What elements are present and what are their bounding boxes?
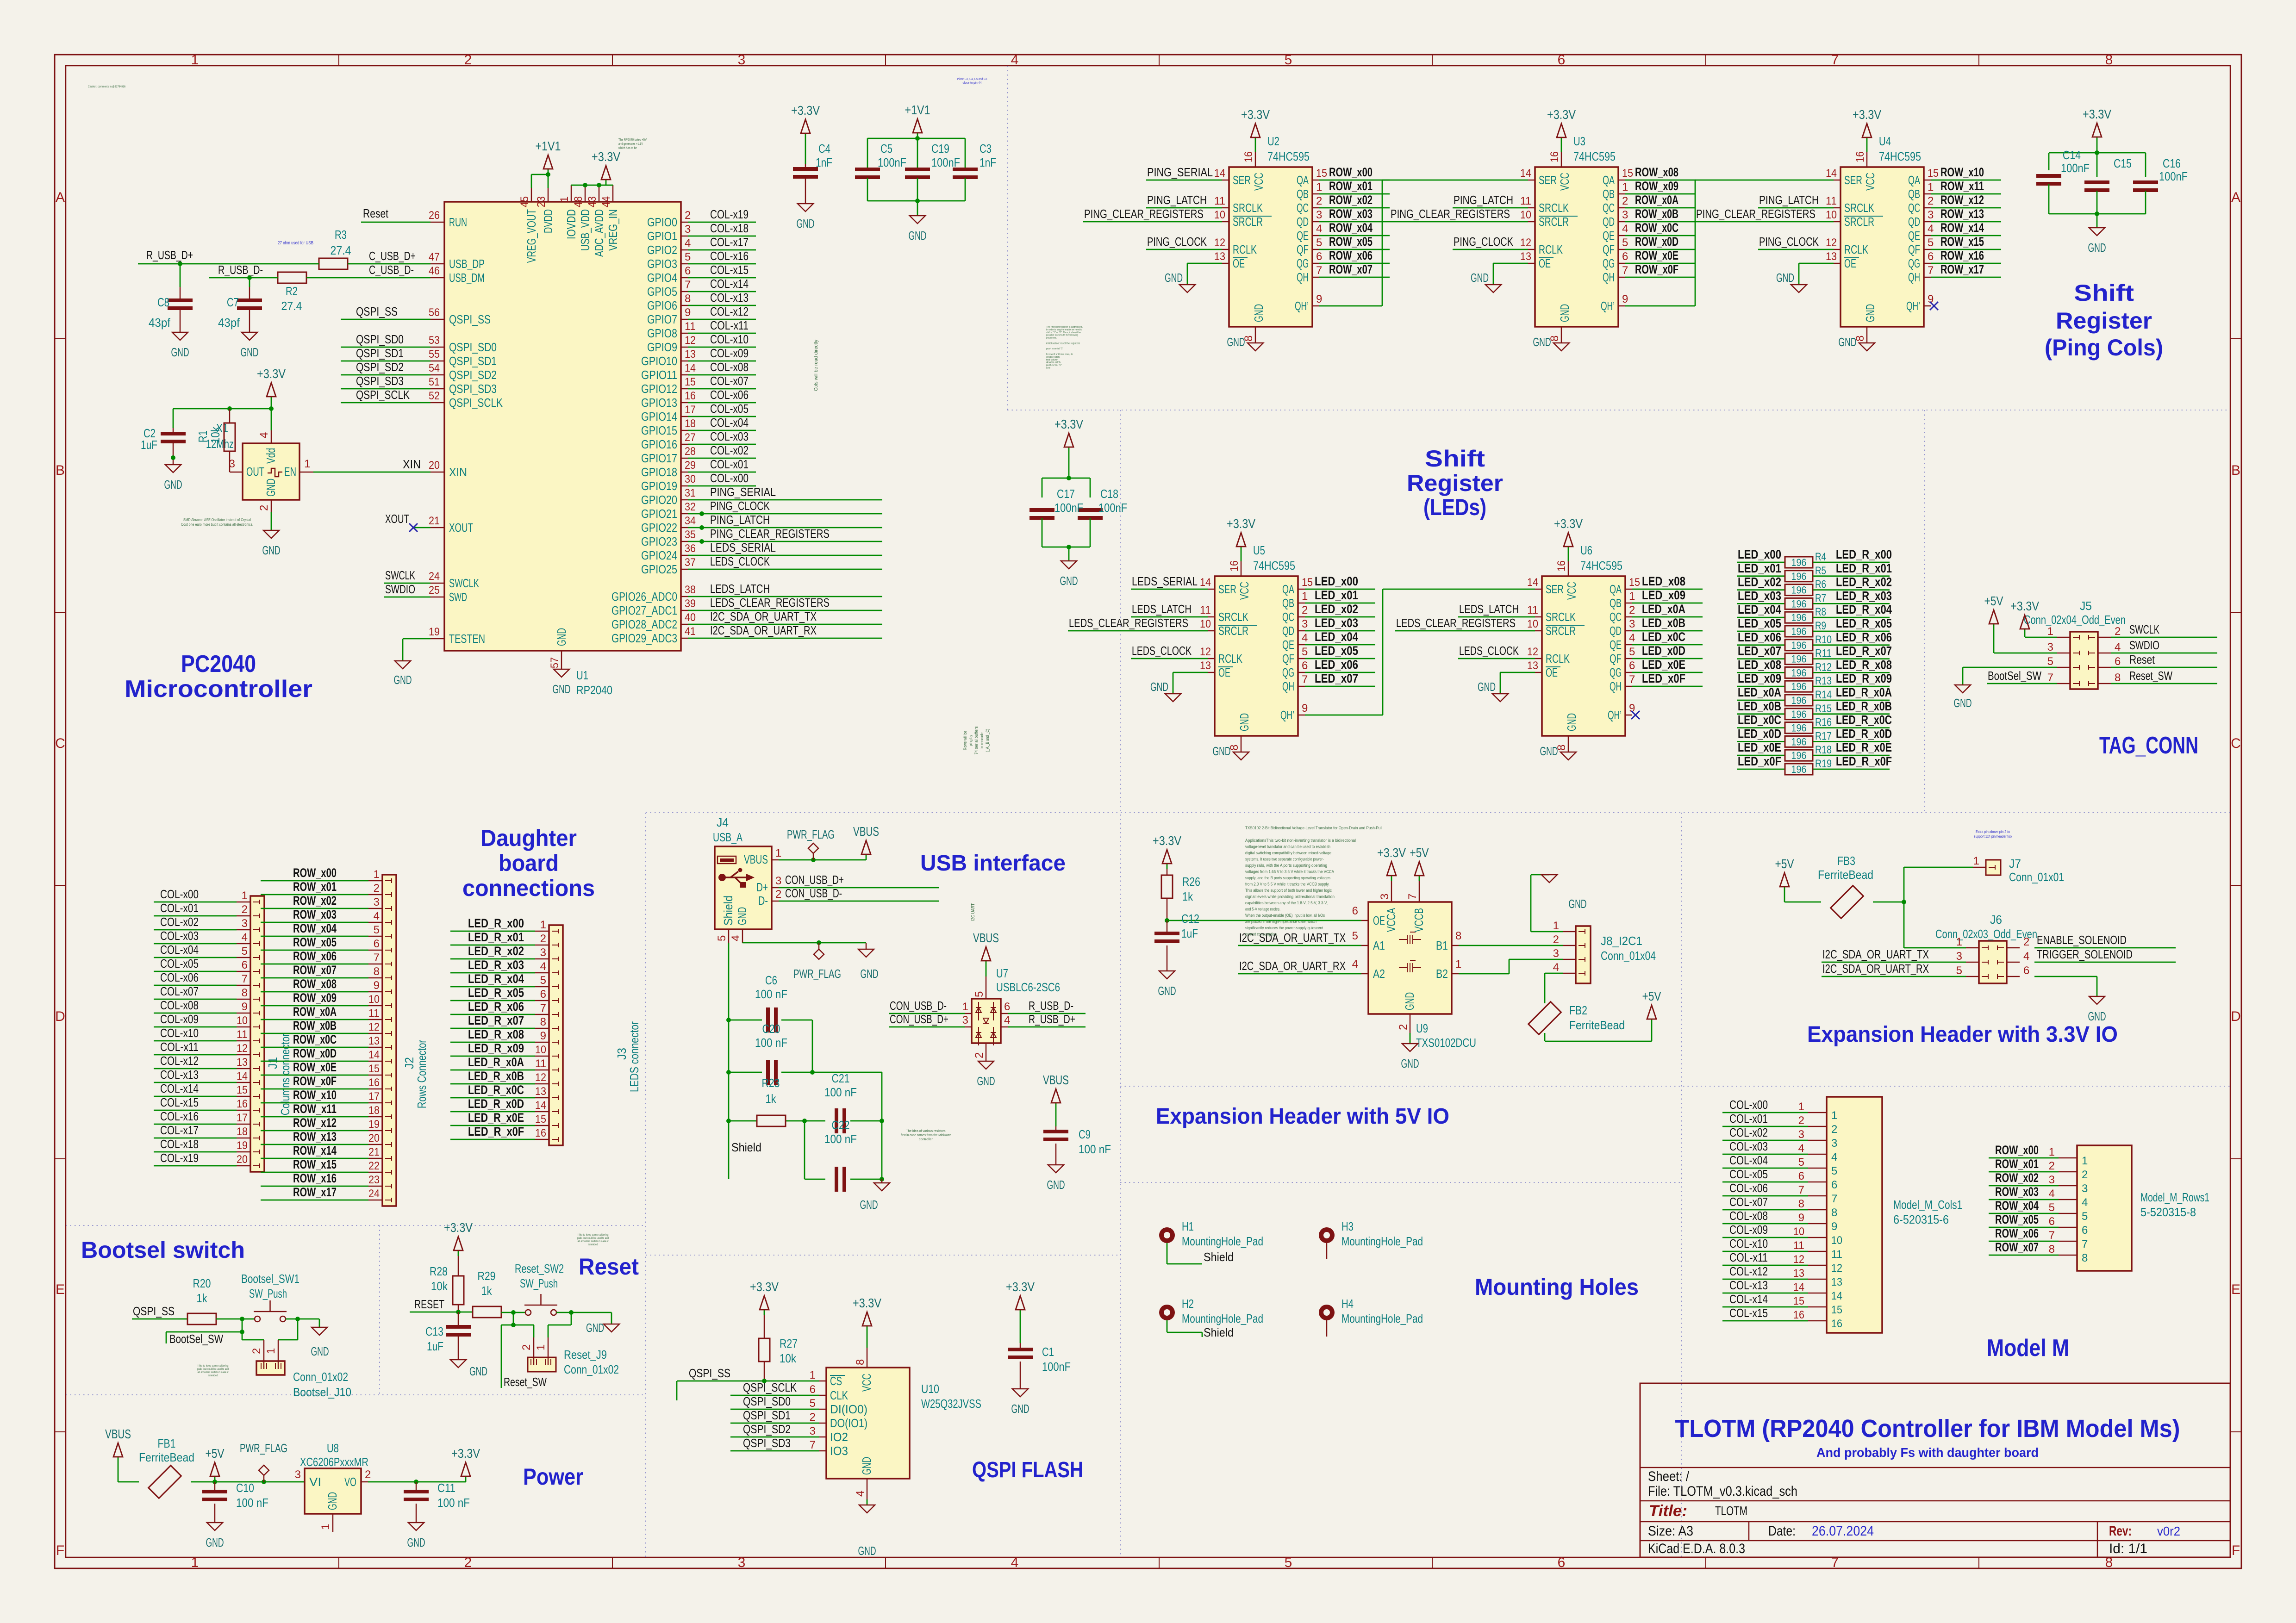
- svg-text:2: 2: [1553, 933, 1559, 946]
- pin 4 of J2: [368, 910, 392, 925]
- mounting hole H3: [1319, 1227, 1335, 1243]
- crystal glyph inside X1: [268, 468, 282, 477]
- pin 52 QSPI_SCLK of U1: [429, 390, 503, 410]
- pin 24 of J2: [368, 1188, 392, 1202]
- svg-text:6: 6: [685, 265, 691, 277]
- svg-text:ROW_x06: ROW_x06: [1995, 1226, 2039, 1240]
- wire net ROW_x00: [1319, 180, 1390, 181]
- wire C17 C18 bottom rail: [1042, 518, 1090, 561]
- svg-text:PING_LATCH: PING_LATCH: [1147, 193, 1207, 207]
- wire net LED_x09: [1737, 686, 1785, 687]
- svg-text:+3.3V: +3.3V: [257, 367, 286, 381]
- svg-text:LED_x0B: LED_x0B: [1738, 699, 1781, 713]
- svg-text:R12: R12: [1815, 661, 1832, 673]
- svg-text:QH’: QH’: [1295, 299, 1309, 313]
- wire net ENABLE_SOLENOID: [2034, 947, 2176, 949]
- svg-text:ROW_x13: ROW_x13: [1940, 207, 1984, 221]
- svg-text:COL-x05: COL-x05: [710, 402, 749, 416]
- svg-text:OUT: OUT: [246, 465, 264, 479]
- svg-text:20: 20: [237, 1153, 248, 1166]
- svg-text:GND: GND: [1471, 271, 1489, 285]
- svg-text:U3: U3: [1573, 134, 1585, 148]
- svg-text:OE: OE: [1539, 256, 1551, 270]
- svg-text:VCC: VCC: [1558, 173, 1572, 191]
- svg-text:Cols will be read directly: Cols will be read directly: [813, 340, 819, 391]
- svg-text:11: 11: [237, 1028, 248, 1041]
- svg-text:1uF: 1uF: [1181, 927, 1198, 940]
- pin 2 GND of X1: [258, 479, 278, 512]
- svg-text:LED_R_x04: LED_R_x04: [468, 972, 524, 986]
- svg-text:LEDS_CLOCK: LEDS_CLOCK: [710, 554, 770, 568]
- pin 3 of Model_M_Rows1: [2049, 1174, 2088, 1195]
- svg-text:14: 14: [1831, 1290, 1842, 1302]
- svg-text:LED_R_x07: LED_R_x07: [1836, 644, 1892, 658]
- pin 18 GPIO15 of U1: [641, 417, 696, 437]
- svg-text:ADC_AVDD: ADC_AVDD: [592, 209, 606, 257]
- USB icon inside J4: [717, 856, 755, 888]
- svg-text:QSPI_SD2: QSPI_SD2: [449, 368, 497, 382]
- svg-text:J3: J3: [615, 1048, 629, 1060]
- wire net LEDS_CLOCK: [688, 569, 882, 570]
- svg-text:3: 3: [374, 896, 380, 908]
- svg-text:22: 22: [368, 1160, 380, 1172]
- pin 1 of Bootsel_J10: [265, 1340, 281, 1369]
- svg-text:COL-x17: COL-x17: [160, 1123, 199, 1137]
- svg-text:GND: GND: [553, 682, 571, 696]
- svg-text:voltages from 1.65 V to 3.6 V: voltages from 1.65 V to 3.6 V while it t…: [1245, 870, 1334, 874]
- svg-text:COL-x11: COL-x11: [160, 1040, 199, 1054]
- svg-text:ROW_x03: ROW_x03: [293, 908, 337, 921]
- svg-text:RP2040: RP2040: [576, 683, 612, 697]
- pin 8 VCC of U10: [854, 1348, 873, 1392]
- power +3.3V at U4: [1853, 107, 1881, 143]
- svg-text:GND: GND: [1776, 271, 1794, 285]
- wire net CON_USB_D+: [779, 887, 939, 889]
- wire net COL-x11: [1722, 1265, 1808, 1266]
- svg-text:VI: VI: [309, 1475, 321, 1489]
- svg-text:COL-x07: COL-x07: [710, 374, 749, 388]
- svg-text:B1: B1: [1436, 939, 1448, 952]
- wire switch right to ground: [556, 1312, 611, 1324]
- svg-text:6: 6: [1352, 905, 1358, 917]
- svg-text:PWR_FLAG: PWR_FLAG: [793, 967, 841, 981]
- svg-text:Conn_01x04: Conn_01x04: [1601, 949, 1656, 963]
- svg-text:GND: GND: [1213, 744, 1231, 758]
- svg-text:ROW_x12: ROW_x12: [1940, 193, 1984, 207]
- wire OE of U6 to ground: [1500, 672, 1535, 694]
- svg-text:v0r2: v0r2: [2157, 1524, 2180, 1538]
- pin 1 IOVDD of U1: [558, 185, 578, 239]
- svg-text:C11: C11: [437, 1481, 455, 1495]
- svg-text:+3.3V: +3.3V: [1054, 417, 1083, 431]
- pin 1 of J7: [1973, 855, 1995, 870]
- svg-text:SRCLR: SRCLR: [1539, 215, 1569, 229]
- wire net ROW_x0A: [261, 1019, 368, 1020]
- C2 top lead: [173, 409, 174, 433]
- svg-text:1: 1: [962, 1001, 968, 1013]
- svg-text:LED_x0B: LED_x0B: [1642, 616, 1685, 630]
- wire net LEDS_LATCH: [1458, 616, 1535, 618]
- svg-text:74HC595: 74HC595: [1253, 559, 1295, 572]
- svg-text:COL-x19: COL-x19: [710, 207, 749, 221]
- wire net COL-x05: [154, 971, 237, 972]
- wire net LED_x0D: [1632, 658, 1703, 659]
- ground under U3: [1533, 335, 1570, 351]
- svg-text:GND: GND: [735, 907, 749, 925]
- svg-text:+3.3V: +3.3V: [592, 149, 620, 164]
- svg-text:SW_Push: SW_Push: [520, 1276, 558, 1290]
- wire net COL-x07: [688, 388, 756, 390]
- wire net LED_x0A: [1737, 700, 1785, 701]
- capacitor C7: [237, 298, 262, 310]
- svg-text:32: 32: [685, 501, 696, 513]
- svg-text:(Ping Cols): (Ping Cols): [2045, 335, 2163, 361]
- svg-text:IO3: IO3: [830, 1444, 848, 1458]
- svg-text:SWCLK: SWCLK: [385, 568, 415, 582]
- pin 29 GPIO18 of U1: [641, 459, 696, 479]
- svg-text:ENABLE_SOLENOID: ENABLE_SOLENOID: [2037, 933, 2127, 947]
- junction: [511, 1323, 516, 1327]
- svg-text:GND: GND: [1011, 1402, 1029, 1416]
- C2 bottom lead: [173, 442, 174, 465]
- pin 4 QE of U4: [1908, 223, 1934, 243]
- svg-text:E: E: [56, 1282, 65, 1297]
- wire net COL-x07: [154, 999, 237, 1000]
- pin 6 of J5: [2089, 655, 2121, 670]
- svg-text:4: 4: [1553, 961, 1559, 974]
- svg-text:EN: EN: [284, 465, 296, 479]
- svg-text:Shield: Shield: [1204, 1250, 1234, 1264]
- wire net LEDS_CLEAR_REGISTERS: [688, 610, 882, 611]
- pin 2 of Model_M_Cols1: [1798, 1114, 1838, 1136]
- pin 1 GND of U8: [319, 1492, 339, 1532]
- svg-text:2: 2: [540, 933, 546, 945]
- svg-text:3: 3: [1316, 209, 1322, 221]
- svg-text:48: 48: [572, 196, 585, 207]
- pin 4 of J1: [237, 931, 260, 946]
- svg-text:196: 196: [1791, 709, 1807, 720]
- wire net COL-x13: [1722, 1293, 1808, 1294]
- wire net LEDS_LATCH: [1131, 616, 1208, 618]
- IC U5 74HC595 body: [1215, 576, 1298, 736]
- pin 22 of J2: [368, 1160, 392, 1175]
- power VBUS input: [105, 1427, 131, 1462]
- wire net LED_R_x04: [450, 986, 535, 988]
- mosfet glyphs inside U9: [1399, 932, 1421, 972]
- svg-text:GND: GND: [1478, 680, 1496, 694]
- svg-text:USB interface: USB interface: [920, 851, 1066, 876]
- pin 5 QF of U3: [1603, 236, 1628, 256]
- svg-text:18: 18: [685, 417, 696, 430]
- wire R20 to switch: [216, 1318, 255, 1320]
- svg-text:COL-x03: COL-x03: [1729, 1139, 1768, 1153]
- svg-text:5: 5: [1285, 52, 1292, 68]
- svg-text:45: 45: [518, 196, 531, 207]
- resistor R20: [187, 1313, 216, 1325]
- pin 7 QH of U2: [1297, 264, 1322, 284]
- wire B1 to J8 pin2: [1459, 945, 1563, 946]
- svg-text:1: 1: [2082, 1155, 2088, 1167]
- wire net SWDIO: [384, 597, 430, 598]
- svg-text:1: 1: [265, 1348, 277, 1354]
- capacitor C9: [1043, 1130, 1068, 1141]
- pin 16 of J3: [535, 1127, 558, 1142]
- svg-text:100nF: 100nF: [878, 155, 906, 169]
- svg-text:+5V: +5V: [1410, 846, 1429, 860]
- pin 6 of Model_M_Cols1: [1798, 1170, 1838, 1191]
- wire net COL-x16: [688, 263, 756, 265]
- wire net TRIGGER_SOLENOID: [2034, 962, 2176, 963]
- power flag PWR_FLAG at 5V rail: [259, 1465, 269, 1482]
- pin 10 SRCLR of U5: [1200, 618, 1257, 638]
- svg-text:U2: U2: [1267, 134, 1279, 148]
- junction R_USB_D-: [247, 275, 252, 280]
- power +5V at U9: [1410, 846, 1429, 881]
- pin 6 QG of U3: [1603, 250, 1628, 270]
- svg-text:COL-x12: COL-x12: [710, 305, 749, 318]
- svg-text:GND: GND: [1569, 897, 1587, 911]
- svg-text:QSPI FLASH: QSPI FLASH: [972, 1458, 1083, 1482]
- svg-text:COL-x14: COL-x14: [160, 1082, 199, 1095]
- svg-text:C4: C4: [818, 142, 830, 155]
- svg-text:LED_R_x0E: LED_R_x0E: [1836, 740, 1892, 754]
- svg-text:Extra pin above pin 2 to: Extra pin above pin 2 to: [1976, 830, 2010, 834]
- wire net ROW_x15: [1931, 249, 2001, 250]
- svg-text:PING_LATCH: PING_LATCH: [1454, 193, 1513, 207]
- svg-text:Sheet: /: Sheet: /: [1648, 1469, 1690, 1484]
- power +3.3V at R27: [750, 1280, 779, 1315]
- power +3.3V at X1: [257, 367, 286, 402]
- svg-text:GND: GND: [1165, 271, 1183, 285]
- svg-text:1: 1: [242, 889, 248, 902]
- svg-text:2: 2: [775, 888, 781, 901]
- pin 4 QE of U6: [1610, 632, 1635, 652]
- svg-text:Id: 1/1: Id: 1/1: [2109, 1541, 2147, 1556]
- pin 8 of J5: [2089, 672, 2121, 686]
- pin 4 QE of U3: [1603, 223, 1628, 243]
- wire net Reset: [361, 222, 430, 223]
- svg-text:VREG_VOUT: VREG_VOUT: [524, 209, 538, 263]
- svg-text:Mounting Holes: Mounting Holes: [1475, 1274, 1639, 1300]
- svg-text:4: 4: [1928, 223, 1934, 235]
- svg-text:PWR_FLAG: PWR_FLAG: [787, 827, 835, 841]
- power +3.3V output: [451, 1446, 480, 1482]
- pin 7 GPIO5 of U1: [647, 279, 691, 298]
- svg-text:J8_I2C1: J8_I2C1: [1601, 934, 1642, 948]
- svg-text:LED_R_x0A: LED_R_x0A: [468, 1055, 524, 1069]
- pin 15 GPIO12 of U1: [641, 376, 696, 396]
- wire net ROW_x0F: [1625, 277, 1696, 278]
- svg-text:GPIO29_ADC3: GPIO29_ADC3: [611, 631, 677, 645]
- pin 4 of J6: [1997, 950, 2029, 964]
- wire net I2C_SDA_OR_UART_RX: [1822, 976, 1966, 977]
- svg-text:40: 40: [685, 611, 696, 624]
- svg-text:Cost one euro more but it cont: Cost one euro more but it contains all e…: [181, 522, 253, 527]
- wire net COL-x00: [688, 485, 756, 487]
- svg-text:QH: QH: [1297, 270, 1309, 284]
- svg-text:COL-x13: COL-x13: [160, 1068, 199, 1082]
- svg-text:2: 2: [810, 1411, 816, 1424]
- svg-text:8: 8: [1831, 1206, 1837, 1219]
- svg-text:1k: 1k: [197, 1291, 208, 1305]
- svg-text:ROW_x0E: ROW_x0E: [1635, 249, 1678, 262]
- pin 2 VO of U8: [344, 1468, 371, 1489]
- svg-text:and generates +1.1V: and generates +1.1V: [618, 143, 643, 146]
- svg-text:15: 15: [1831, 1304, 1842, 1316]
- pin 2 of J8_I2C1: [1553, 933, 1585, 948]
- svg-text:5: 5: [2047, 655, 2053, 668]
- svg-text:QSPI_SD2: QSPI_SD2: [743, 1422, 791, 1436]
- svg-text:GND: GND: [1047, 1178, 1065, 1192]
- svg-text:GPIO8: GPIO8: [647, 326, 677, 340]
- svg-text:10: 10: [1826, 209, 1837, 221]
- svg-text:QE: QE: [1908, 229, 1920, 243]
- svg-text:LED_x0A: LED_x0A: [1642, 602, 1685, 616]
- svg-text:GND: GND: [860, 1457, 873, 1475]
- C1 leads: [1020, 1315, 1021, 1389]
- svg-text:8: 8: [2105, 52, 2113, 68]
- svg-text:15: 15: [237, 1084, 248, 1096]
- svg-text:5: 5: [1285, 1555, 1292, 1570]
- svg-text:3: 3: [810, 1425, 816, 1437]
- wire FB1 to U8: [191, 1481, 305, 1483]
- svg-text:LED_x0F: LED_x0F: [1738, 754, 1781, 768]
- R1 leads: [229, 409, 231, 472]
- svg-text:A1: A1: [1373, 939, 1385, 952]
- wire OE of U5 to ground: [1173, 672, 1208, 694]
- svg-text:Daughter: Daughter: [480, 825, 577, 851]
- svg-text:ROW_x09: ROW_x09: [293, 991, 337, 1005]
- wire B2 to J8 pin3: [1459, 959, 1563, 974]
- svg-text:13: 13: [1520, 250, 1531, 263]
- IC U9 TXS0102DCU body: [1368, 902, 1452, 1014]
- wire net LED_x07: [1305, 686, 1375, 687]
- svg-text:13: 13: [535, 1085, 546, 1098]
- svg-text:1: 1: [1928, 181, 1934, 193]
- ground at J5: [1954, 685, 1972, 710]
- svg-text:12: 12: [1826, 236, 1837, 249]
- pin 2 of Bootsel_J10: [250, 1340, 267, 1369]
- wire net ROW_x05: [1319, 249, 1390, 250]
- ground at Bootsel switch: [312, 1327, 327, 1335]
- svg-text:support 1x4 pin header too: support 1x4 pin header too: [1974, 834, 2012, 839]
- svg-text:39: 39: [685, 597, 696, 610]
- svg-text:+3.3V: +3.3V: [1547, 107, 1576, 122]
- svg-text:1k: 1k: [1182, 889, 1193, 903]
- wire net ROW_x12: [261, 1130, 368, 1132]
- wire J4 GND rail: [742, 942, 866, 944]
- svg-text:ROW_x05: ROW_x05: [1329, 235, 1373, 249]
- pin 12 RCLK of U2: [1214, 236, 1257, 256]
- svg-text:5: 5: [1302, 646, 1308, 658]
- svg-text:are placed in the high-impedan: are placed in the high-impedance state, …: [1245, 920, 1316, 924]
- pin 5 of U7 VBUS: [973, 976, 986, 999]
- svg-text:COL-x14: COL-x14: [1729, 1292, 1768, 1306]
- pin 9 QH' of U3: [1601, 293, 1628, 313]
- junction ground rail: [915, 199, 920, 203]
- svg-text:1k: 1k: [481, 1284, 493, 1298]
- svg-text:VCC: VCC: [1252, 173, 1266, 191]
- svg-text:Reset_SW: Reset_SW: [2129, 669, 2172, 683]
- svg-text:1: 1: [191, 1555, 199, 1570]
- svg-text:C12: C12: [1181, 912, 1199, 926]
- pin 4 of J3: [535, 960, 558, 975]
- wire net LED_R_x06: [1813, 644, 1890, 646]
- svg-text:ROW_x04: ROW_x04: [1995, 1199, 2039, 1213]
- wire net PING_CLOCK: [1758, 249, 1834, 250]
- svg-text:LEDS_LATCH: LEDS_LATCH: [710, 582, 770, 596]
- wire net ROW_x03: [261, 922, 368, 923]
- svg-text:GPIO7: GPIO7: [647, 312, 677, 326]
- svg-text:and 5-V voltage nodes.: and 5-V voltage nodes.: [1245, 907, 1280, 912]
- svg-text:3: 3: [775, 875, 781, 887]
- svg-text:5: 5: [540, 974, 546, 987]
- wire net PING_LATCH: [1758, 207, 1834, 209]
- svg-text:QSPI_SD2: QSPI_SD2: [356, 360, 404, 374]
- junction: [880, 1119, 884, 1123]
- wire net Reset_SW: [2111, 683, 2217, 684]
- ground under C9: [1047, 1165, 1065, 1192]
- pin 5 of Model_M_Cols1: [1798, 1156, 1838, 1177]
- wire net PING_LATCH: [1453, 207, 1528, 209]
- svg-text:ROW_x10: ROW_x10: [293, 1088, 337, 1102]
- svg-text:CON_USB_D+: CON_USB_D+: [890, 1012, 948, 1026]
- border column tick marks: [339, 55, 1979, 1568]
- svg-text:1: 1: [810, 1369, 816, 1381]
- svg-text:COL-x05: COL-x05: [1729, 1167, 1768, 1181]
- wire net QSPI_SS: [132, 1318, 187, 1320]
- svg-text:ROW_x15: ROW_x15: [293, 1157, 337, 1171]
- svg-text:PING_CLEAR_REGISTERS: PING_CLEAR_REGISTERS: [1391, 207, 1510, 221]
- svg-text:LED_x06: LED_x06: [1738, 630, 1781, 644]
- svg-text:R14: R14: [1815, 689, 1832, 701]
- pin 3 QD of U6: [1610, 618, 1635, 638]
- svg-text:COL-x16: COL-x16: [710, 249, 749, 263]
- svg-text:4: 4: [258, 432, 270, 438]
- pin 13 of J1: [237, 1056, 260, 1071]
- pin 56 QSPI_SS of U1: [429, 306, 491, 326]
- svg-text:C10: C10: [236, 1481, 254, 1495]
- svg-text:R4: R4: [1815, 551, 1826, 563]
- pin 11 SRCLK of U3: [1520, 195, 1569, 215]
- svg-text:CON_USB_D-: CON_USB_D-: [785, 886, 842, 900]
- svg-text:LED_x04: LED_x04: [1738, 603, 1781, 616]
- svg-text:C18: C18: [1100, 487, 1118, 501]
- svg-text:R19: R19: [1815, 758, 1832, 770]
- pin 15 QA of U5: [1282, 576, 1313, 596]
- pin 4 of Model_M_Cols1: [1798, 1142, 1838, 1163]
- svg-text:11: 11: [1831, 1248, 1842, 1261]
- pin 5 of J5: [2047, 655, 2079, 670]
- svg-text:7: 7: [1629, 673, 1635, 686]
- capacitor C20: [766, 1060, 778, 1085]
- pin 5 of J6: [1956, 964, 1988, 979]
- svg-text:PING_CLOCK: PING_CLOCK: [1147, 235, 1207, 249]
- pin 6 of J1: [237, 959, 260, 974]
- svg-text:15: 15: [1793, 1295, 1804, 1307]
- svg-text:ROW_x0A: ROW_x0A: [293, 1005, 337, 1019]
- wire VBUS of J4: [779, 859, 866, 861]
- pin 2 of J5: [2089, 625, 2121, 640]
- capacitor C3: [953, 168, 978, 179]
- wire net I2C_SDA_OR_UART_TX: [688, 624, 882, 625]
- junction Shield at C20: [726, 1070, 731, 1075]
- svg-text:3: 3: [1928, 209, 1934, 221]
- svg-text:GPIO19: GPIO19: [641, 479, 677, 493]
- wire net COL-x03: [154, 943, 237, 945]
- svg-text:SRCLR: SRCLR: [1844, 215, 1874, 229]
- svg-text:MountingHole_Pad: MountingHole_Pad: [1341, 1234, 1423, 1248]
